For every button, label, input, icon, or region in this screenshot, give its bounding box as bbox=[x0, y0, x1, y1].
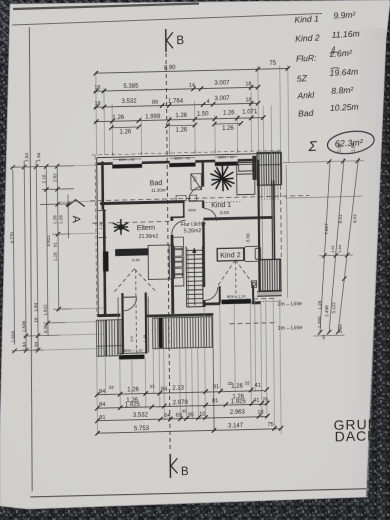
svg-text:4.35: 4.35 bbox=[43, 324, 48, 334]
svg-text:B: B bbox=[176, 35, 184, 47]
Bad fixtures: shower bbox=[191, 174, 202, 190]
svg-text:Bad: Bad bbox=[150, 180, 163, 187]
dark furniture label Eltern bbox=[115, 248, 149, 256]
window Eltern left bbox=[103, 251, 109, 271]
svg-text:5.753: 5.753 bbox=[134, 426, 150, 432]
Kind2 bay walls bbox=[220, 285, 254, 303]
svg-text:2.10: 2.10 bbox=[41, 174, 46, 184]
dim row 2 bottom bbox=[97, 404, 267, 408]
svg-text:1.61: 1.61 bbox=[330, 244, 335, 253]
right ext horizontals bbox=[283, 161, 366, 337]
top wall inner thick with window gaps bbox=[97, 160, 254, 164]
tick slashes bottom bbox=[95, 387, 283, 435]
svg-text:3.007: 3.007 bbox=[215, 96, 231, 102]
loggia top right hatched bbox=[252, 152, 281, 201]
door arc Kind1 bbox=[204, 208, 217, 221]
Eltern bed bbox=[148, 245, 174, 280]
flower scribble Eltern bbox=[113, 219, 128, 234]
Kind2 bed bbox=[244, 246, 260, 261]
dashed 1m line lower right bbox=[229, 323, 276, 324]
svg-text:B: B bbox=[181, 466, 189, 478]
wall Eltern/Flur vertical bbox=[172, 217, 173, 313]
svg-text:81: 81 bbox=[213, 384, 219, 390]
svg-text:1.26: 1.26 bbox=[120, 129, 132, 135]
right tick slashes bbox=[316, 159, 362, 335]
Bad sink and wc bbox=[176, 195, 197, 201]
bottom wall right of bay bbox=[145, 314, 213, 316]
sheet frame vertical line left bbox=[27, 27, 34, 491]
svg-text:1.26: 1.26 bbox=[222, 126, 234, 132]
left wall inner thick bbox=[102, 162, 105, 315]
window W1 bbox=[112, 158, 142, 169]
svg-text:1.925: 1.925 bbox=[231, 399, 247, 405]
balcony hatch right of bay bbox=[153, 317, 213, 349]
right inner wall (rooms) bbox=[258, 160, 259, 297]
svg-text:4.46: 4.46 bbox=[132, 257, 141, 262]
svg-text:A: A bbox=[70, 215, 82, 223]
dim row E below bbox=[111, 123, 241, 127]
door arc Eltern bbox=[172, 220, 186, 234]
svg-text:8.90: 8.90 bbox=[164, 65, 176, 71]
dashed 1m line upper-left bbox=[92, 221, 170, 223]
Eltern bay (Erker) walls bbox=[122, 293, 146, 355]
right outer wall thick middle bbox=[271, 180, 274, 259]
door arc Kind2 bbox=[205, 287, 218, 300]
svg-text:1.393: 1.393 bbox=[317, 316, 322, 328]
svg-text:89: 89 bbox=[152, 100, 158, 106]
svg-text:1.604: 1.604 bbox=[10, 331, 15, 343]
star scribble Kind1 bbox=[211, 165, 234, 191]
left rotated texts bbox=[9, 152, 65, 352]
Kind2 label box bbox=[217, 248, 244, 261]
svg-text:Bad: Bad bbox=[298, 108, 314, 119]
svg-text:3.147: 3.147 bbox=[228, 423, 244, 429]
svg-text:21.30m2: 21.30m2 bbox=[139, 234, 159, 240]
svg-text:6.51: 6.51 bbox=[338, 214, 343, 224]
svg-text:1.84: 1.84 bbox=[338, 324, 343, 334]
svg-text:Eltern: Eltern bbox=[137, 225, 155, 232]
dashed dormer triangle Kind2 bbox=[217, 259, 254, 298]
svg-text:2.979: 2.979 bbox=[173, 400, 189, 406]
svg-text:62.3m²: 62.3m² bbox=[335, 137, 364, 149]
svg-text:1.84: 1.84 bbox=[24, 152, 29, 162]
svg-text:1.26: 1.26 bbox=[99, 222, 103, 229]
svg-text:BRH = 90: BRH = 90 bbox=[218, 156, 234, 160]
svg-text:33: 33 bbox=[244, 380, 250, 385]
left ext horizontals bbox=[13, 165, 104, 351]
dim row B bbox=[94, 87, 258, 91]
svg-text:3.0: 3.0 bbox=[192, 176, 197, 183]
dim row A 8.90 / 75 bbox=[96, 68, 289, 73]
svg-text:3.007: 3.007 bbox=[214, 80, 230, 86]
svg-text:11.16m: 11.16m bbox=[331, 28, 359, 39]
small wall marks left bbox=[98, 210, 106, 237]
svg-text:84: 84 bbox=[161, 387, 167, 393]
svg-text:1.999: 1.999 bbox=[145, 114, 161, 120]
svg-text:84: 84 bbox=[99, 389, 105, 395]
dashed roof outline top bbox=[92, 150, 281, 155]
wardrobe rects left of stairs bbox=[172, 237, 184, 286]
svg-text:1.26: 1.26 bbox=[58, 215, 63, 225]
svg-text:Abst: Abst bbox=[188, 208, 197, 212]
svg-text:3.532: 3.532 bbox=[133, 412, 149, 418]
svg-text:Kind 2: Kind 2 bbox=[220, 250, 240, 259]
svg-text:10.25m: 10.25m bbox=[330, 102, 359, 113]
svg-text:3.06: 3.06 bbox=[246, 233, 252, 243]
svg-text:Kind 2: Kind 2 bbox=[295, 32, 320, 43]
svg-text:Ankl: Ankl bbox=[296, 90, 315, 101]
svg-text:1.28: 1.28 bbox=[317, 300, 322, 310]
svg-text:Σ: Σ bbox=[307, 138, 318, 155]
svg-text:90/70 40/88: 90/70 40/88 bbox=[121, 250, 144, 256]
section marker B bottom bbox=[170, 454, 177, 478]
window jamb ticks above top wall bbox=[113, 149, 238, 156]
svg-text:2.82: 2.82 bbox=[52, 173, 57, 183]
svg-text:BRH = 1.30: BRH = 1.30 bbox=[124, 349, 143, 353]
svg-text:Kind 1: Kind 1 bbox=[211, 202, 231, 209]
svg-text:4: 4 bbox=[207, 99, 210, 105]
svg-text:1.622: 1.622 bbox=[43, 304, 48, 316]
Kind2 bay sill dark bbox=[221, 299, 251, 304]
Eltern nightstand rects bbox=[174, 247, 182, 278]
svg-text:1.84: 1.84 bbox=[337, 244, 342, 253]
svg-text:5.26m2: 5.26m2 bbox=[184, 228, 201, 234]
stair rails bbox=[185, 247, 188, 308]
Eltern bay window sill dark bbox=[119, 355, 145, 360]
svg-text:2.963: 2.963 bbox=[230, 410, 246, 416]
svg-text:1.26: 1.26 bbox=[127, 387, 139, 393]
svg-text:2m – Linie: 2m – Linie bbox=[277, 301, 302, 308]
closet strip thin lines bbox=[262, 162, 263, 295]
svg-text:91: 91 bbox=[53, 242, 58, 248]
svg-text:41: 41 bbox=[253, 398, 259, 404]
svg-text:3.04: 3.04 bbox=[220, 210, 230, 216]
svg-text:1.846: 1.846 bbox=[21, 320, 26, 332]
svg-text:10: 10 bbox=[199, 412, 205, 418]
dim row 4 bottom bbox=[98, 429, 282, 433]
svg-text:33: 33 bbox=[108, 385, 114, 390]
svg-text:6.51: 6.51 bbox=[352, 213, 357, 223]
loggia bottom right hatched bbox=[251, 259, 281, 302]
svg-text:1.26: 1.26 bbox=[52, 215, 57, 225]
wall Kind1/Kind2 horizontal bbox=[203, 217, 273, 219]
svg-text:1.071: 1.071 bbox=[242, 109, 258, 115]
svg-text:1.84: 1.84 bbox=[22, 342, 27, 352]
svg-text:18: 18 bbox=[245, 81, 251, 87]
title block separator bottom line bbox=[30, 489, 366, 497]
letterhead second line bbox=[12, 14, 322, 26]
balcony hatch left of bay bbox=[96, 320, 122, 357]
letterhead top line thick bbox=[13, 4, 199, 10]
svg-text:75: 75 bbox=[267, 422, 273, 428]
svg-text:1.50: 1.50 bbox=[197, 112, 209, 118]
section line B-B dashed vertical bbox=[166, 32, 170, 451]
svg-text:8.8m²: 8.8m² bbox=[331, 85, 354, 96]
svg-text:40: 40 bbox=[182, 409, 187, 414]
svg-text:4.912: 4.912 bbox=[46, 235, 51, 247]
svg-text:2.13: 2.13 bbox=[172, 386, 184, 392]
svg-text:1.26: 1.26 bbox=[223, 110, 235, 116]
svg-text:41: 41 bbox=[254, 383, 260, 389]
Kind2 bottom wall bbox=[203, 302, 220, 305]
tick slashes top bbox=[94, 66, 291, 130]
svg-text:7.927: 7.927 bbox=[324, 223, 329, 235]
svg-text:5Z: 5Z bbox=[297, 73, 308, 84]
svg-text:1.26: 1.26 bbox=[112, 115, 124, 121]
svg-text:3.122: 3.122 bbox=[331, 302, 336, 314]
svg-text:1.48: 1.48 bbox=[142, 334, 147, 343]
svg-text:95: 95 bbox=[188, 412, 194, 418]
dim row 3 bottom bbox=[97, 417, 267, 421]
svg-text:DACH: DACH bbox=[335, 427, 379, 444]
dashed roof outline left bbox=[95, 156, 97, 316]
Flur step wall bbox=[183, 202, 185, 218]
carpet diagonal weave top-left bbox=[0, 0, 390, 60]
left wall outer line bbox=[97, 158, 99, 316]
svg-text:Kind 1: Kind 1 bbox=[294, 14, 319, 25]
door arc balcony Eltern bay bbox=[123, 297, 137, 311]
dashed 2m line lower right bbox=[229, 298, 276, 299]
extension verticals bbox=[96, 65, 289, 184]
window W2 bbox=[169, 156, 195, 167]
dashed 2m line upper bbox=[90, 195, 309, 200]
svg-text:9.770: 9.770 bbox=[9, 232, 14, 244]
Kind1 bed bbox=[237, 162, 255, 194]
svg-text:BRH = 90: BRH = 90 bbox=[119, 158, 135, 162]
dim row C bbox=[94, 103, 258, 107]
section marker B top bbox=[166, 29, 173, 52]
window W3 bbox=[215, 155, 239, 166]
dashed dormer triangle Eltern bbox=[112, 268, 157, 354]
svg-text:1.84: 1.84 bbox=[36, 152, 41, 162]
wall Flur/Kind vertical (stair wall) bbox=[203, 161, 205, 307]
extension verticals bottom bbox=[96, 299, 281, 438]
svg-text:81: 81 bbox=[212, 398, 218, 404]
dotted line Kind1 bbox=[206, 201, 240, 204]
stair treads bbox=[186, 250, 203, 303]
dim row D bbox=[94, 118, 263, 122]
svg-text:81: 81 bbox=[99, 415, 105, 421]
svg-text:18: 18 bbox=[33, 317, 38, 323]
top wall outer line bbox=[97, 153, 281, 158]
left tick rows bbox=[10, 166, 76, 351]
left tick slashes bbox=[11, 164, 72, 353]
right rotated texts bbox=[315, 142, 359, 339]
svg-text:3.532: 3.532 bbox=[122, 99, 138, 105]
door arc Bad bbox=[189, 187, 203, 201]
wall Bad/Eltern horizontal bbox=[100, 202, 184, 204]
svg-text:1.26: 1.26 bbox=[53, 252, 58, 262]
svg-text:1.26: 1.26 bbox=[176, 127, 188, 133]
svg-text:75: 75 bbox=[269, 61, 276, 67]
svg-text:0.5: 0.5 bbox=[129, 335, 134, 341]
left dim verticals bbox=[13, 159, 70, 351]
svg-text:1.26: 1.26 bbox=[231, 383, 243, 389]
svg-text:11.30m²: 11.30m² bbox=[151, 187, 167, 192]
staircase bbox=[186, 246, 203, 307]
svg-text:1.26: 1.26 bbox=[175, 113, 187, 119]
svg-text:64: 64 bbox=[164, 413, 170, 419]
svg-text:FluR:: FluR: bbox=[296, 53, 318, 64]
svg-text:1.925: 1.925 bbox=[125, 402, 141, 408]
svg-text:84: 84 bbox=[99, 402, 105, 408]
svg-text:18: 18 bbox=[246, 97, 252, 103]
section marker A left bbox=[67, 199, 85, 206]
svg-text:5.385: 5.385 bbox=[123, 83, 139, 89]
svg-text:BRH = 90: BRH = 90 bbox=[174, 157, 190, 161]
svg-text:1m – Linie: 1m – Linie bbox=[277, 325, 302, 332]
dim row 1 bottom bbox=[97, 391, 264, 395]
svg-text:2.498: 2.498 bbox=[324, 305, 329, 317]
bottom wall left segment bbox=[97, 314, 120, 318]
svg-text:1.84: 1.84 bbox=[33, 302, 38, 312]
right edge shading of paper bbox=[345, 28, 386, 498]
svg-text:33: 33 bbox=[149, 384, 155, 389]
stair center line with arrow bbox=[193, 249, 196, 305]
dashed roof edge right bbox=[280, 185, 283, 258]
svg-text:9.9m²: 9.9m² bbox=[333, 10, 356, 21]
right dim vertical small bbox=[286, 165, 287, 298]
svg-text:1.84: 1.84 bbox=[34, 341, 39, 351]
